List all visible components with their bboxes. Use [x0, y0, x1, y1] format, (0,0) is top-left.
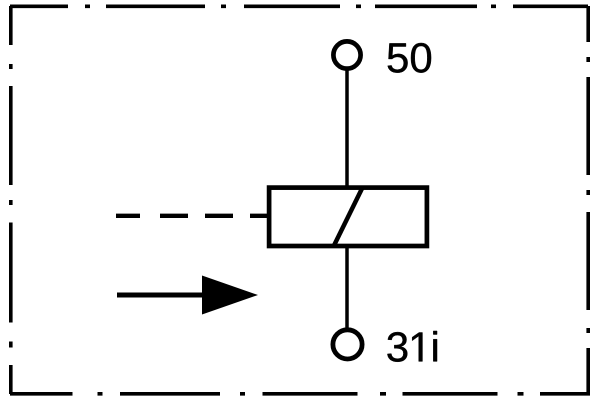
terminal 31i circle — [333, 330, 362, 359]
label terminal 50 — [388, 43, 431, 73]
wire from terminal 50 to switch — [345, 55, 349, 189]
wire from switch to terminal 31i — [345, 245, 349, 344]
switch body box — [269, 188, 427, 246]
switch contact lever (diagonal) — [334, 188, 363, 247]
actuation direction arrow shaft — [117, 293, 206, 298]
actuation direction arrow head — [202, 276, 258, 315]
terminal 50 circle — [333, 41, 360, 68]
label terminal 31i — [387, 331, 437, 362]
mechanical actuation link (dashed) — [116, 214, 267, 218]
